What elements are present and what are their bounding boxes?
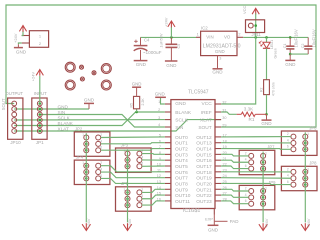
svg-text:TLC5947: TLC5947 — [188, 90, 209, 96]
svg-text:2: 2 — [141, 188, 143, 192]
svg-text:6: 6 — [245, 199, 247, 203]
svg-text:R2: R2 — [260, 87, 264, 92]
svg-text:IC2: IC2 — [201, 26, 208, 31]
svg-text:LED1: LED1 — [270, 40, 274, 49]
svg-text:XLAT: XLAT — [200, 117, 212, 123]
svg-text:GND: GND — [132, 81, 142, 86]
svg-text:31: 31 — [222, 108, 226, 112]
svg-text:4: 4 — [287, 138, 289, 142]
svg-text:GND: GND — [175, 101, 186, 107]
svg-text:OUT9: OUT9 — [175, 187, 188, 193]
svg-text:1: 1 — [265, 186, 267, 190]
svg-text:OUT23: OUT23 — [196, 199, 212, 205]
svg-text:SCLK: SCLK — [175, 117, 188, 123]
svg-text:OUT0: OUT0 — [175, 135, 188, 141]
svg-text:OUT21: OUT21 — [196, 187, 212, 193]
svg-text:3: 3 — [219, 57, 221, 61]
svg-text:2: 2 — [141, 149, 143, 153]
svg-text:OUT20: OUT20 — [196, 181, 212, 187]
svg-text:Green: Green — [273, 48, 277, 58]
svg-text:2.2K: 2.2K — [141, 98, 145, 106]
svg-text:OUT12: OUT12 — [196, 135, 212, 141]
svg-text:JP6: JP6 — [309, 125, 317, 130]
svg-text:SOUT: SOUT — [198, 125, 211, 131]
svg-text:JP11: JP11 — [252, 32, 262, 37]
svg-text:OUT13: OUT13 — [196, 141, 212, 147]
svg-text:1: 1 — [307, 167, 309, 171]
svg-text:6: 6 — [100, 146, 102, 150]
svg-text:VCC: VCC — [202, 101, 213, 107]
svg-text:6: 6 — [245, 164, 247, 168]
svg-text:SOUT: SOUT — [1, 98, 6, 110]
svg-text:SCLK: SCLK — [58, 115, 71, 120]
svg-text:4: 4 — [141, 155, 143, 159]
svg-text:EXP: EXP — [205, 216, 213, 221]
svg-text:+24V: +24V — [164, 17, 169, 27]
svg-text:6: 6 — [287, 145, 289, 149]
svg-text:4: 4 — [245, 158, 247, 162]
svg-text:JP4: JP4 — [76, 155, 84, 160]
svg-text:OUT2: OUT2 — [175, 147, 188, 153]
svg-text:VCC: VCC — [242, 5, 247, 14]
svg-text:2: 2 — [100, 161, 102, 165]
svg-text:6: 6 — [100, 174, 102, 178]
svg-text:GND: GND — [261, 121, 272, 126]
svg-text:GND: GND — [212, 70, 223, 75]
svg-text:3.3K: 3.3K — [244, 107, 254, 112]
svg-text:OUT16: OUT16 — [196, 158, 212, 164]
svg-text:6: 6 — [141, 162, 143, 166]
svg-text:4: 4 — [287, 174, 289, 178]
svg-text:6: 6 — [287, 180, 289, 184]
svg-text:2: 2 — [39, 41, 42, 46]
svg-text:2: 2 — [100, 133, 102, 137]
svg-text:VIN: VIN — [206, 35, 213, 40]
svg-text:2: 2 — [245, 151, 247, 155]
svg-text:+24V: +24V — [127, 218, 132, 228]
svg-text:OUT19: OUT19 — [196, 176, 212, 182]
svg-text:OUT4: OUT4 — [175, 158, 188, 164]
svg-text:1: 1 — [307, 132, 309, 136]
svg-text:OUT7: OUT7 — [175, 176, 188, 182]
svg-text:32: 32 — [222, 100, 226, 104]
svg-text:C4: C4 — [144, 38, 150, 43]
svg-text:OUT17: OUT17 — [196, 164, 212, 170]
svg-text:+24V: +24V — [306, 218, 311, 228]
svg-text:GND: GND — [58, 104, 69, 109]
svg-text:1: 1 — [158, 100, 160, 104]
svg-text:6: 6 — [141, 201, 143, 205]
svg-text:2: 2 — [158, 108, 160, 112]
svg-text:1: 1 — [124, 188, 126, 192]
svg-text:4: 4 — [100, 167, 102, 171]
svg-text:VO: VO — [224, 35, 231, 40]
svg-text:BLANK: BLANK — [58, 121, 74, 126]
svg-text:GND: GND — [16, 49, 27, 54]
svg-text:GND: GND — [166, 63, 177, 68]
svg-text:10uF/16V: 10uF/16V — [311, 29, 316, 47]
svg-text:OUT1: OUT1 — [175, 141, 188, 147]
svg-text:IREF: IREF — [201, 110, 212, 116]
svg-text:PAD: PAD — [230, 219, 240, 224]
svg-text:IC1G$1: IC1G$1 — [183, 208, 200, 214]
svg-text:OUT5: OUT5 — [175, 164, 188, 170]
svg-text:C2: C2 — [301, 44, 305, 49]
svg-text:BLANK: BLANK — [175, 110, 192, 116]
svg-text:GND: GND — [155, 91, 166, 96]
svg-text:OUT11: OUT11 — [175, 199, 190, 205]
svg-text:1: 1 — [124, 149, 126, 153]
svg-text:2: 2 — [287, 167, 289, 171]
svg-text:1: 1 — [39, 33, 42, 38]
svg-text:OUT8: OUT8 — [175, 181, 188, 187]
svg-text:JP3: JP3 — [121, 142, 129, 147]
svg-text:30: 30 — [222, 116, 226, 120]
svg-text:R1: R1 — [249, 117, 255, 122]
svg-text:R5: R5 — [129, 103, 133, 108]
svg-text:1: 1 — [197, 32, 199, 36]
svg-text:OUT6: OUT6 — [175, 170, 188, 176]
svg-text:GND: GND — [136, 62, 147, 67]
svg-text:10uF/16V: 10uF/16V — [293, 29, 298, 47]
svg-text:+24V: +24V — [86, 218, 91, 228]
svg-text:OUT10: OUT10 — [175, 193, 191, 199]
svg-text:INPUT: INPUT — [34, 91, 47, 96]
svg-text:JP8: JP8 — [309, 161, 317, 166]
svg-text:SIN: SIN — [175, 125, 184, 131]
svg-text:OUT3: OUT3 — [175, 152, 188, 158]
svg-text:C1: C1 — [283, 44, 287, 49]
svg-text:OUT14: OUT14 — [196, 147, 212, 153]
svg-text:4: 4 — [245, 193, 247, 197]
svg-text:GND: GND — [208, 227, 219, 232]
svg-text:JP10: JP10 — [10, 140, 21, 145]
svg-text:JP1: JP1 — [36, 140, 44, 145]
svg-text:4: 4 — [141, 194, 143, 198]
svg-text:4: 4 — [100, 139, 102, 143]
svg-text:SIN: SIN — [58, 110, 66, 115]
svg-text:2: 2 — [287, 132, 289, 136]
svg-text:.1uF/50V: .1uF/50V — [159, 33, 163, 49]
svg-text:XLAT: XLAT — [58, 126, 70, 131]
svg-text:2: 2 — [238, 32, 240, 36]
svg-text:1: 1 — [82, 161, 84, 165]
svg-text:JP2: JP2 — [75, 126, 83, 131]
svg-text:OUT22: OUT22 — [196, 193, 212, 199]
svg-text:2: 2 — [245, 186, 247, 190]
svg-text:OUT15: OUT15 — [196, 152, 212, 158]
svg-text:1: 1 — [265, 151, 267, 155]
svg-text:OUTPUT: OUTPUT — [5, 91, 23, 96]
svg-text:~1000uF: ~1000uF — [143, 50, 162, 55]
svg-text:OUT18: OUT18 — [196, 170, 212, 176]
svg-text:C5: C5 — [177, 44, 181, 49]
svg-text:470 ohm: 470 ohm — [271, 82, 275, 96]
svg-text:3: 3 — [158, 116, 160, 120]
svg-text:GND: GND — [215, 49, 225, 54]
svg-text:4: 4 — [158, 123, 160, 127]
svg-text:+24V: +24V — [31, 72, 36, 82]
svg-text:29: 29 — [222, 123, 226, 127]
svg-text:+24V: +24V — [264, 218, 269, 228]
svg-text:GND: GND — [84, 98, 95, 103]
svg-text:GND: GND — [285, 62, 296, 67]
svg-text:1: 1 — [82, 133, 84, 137]
svg-text:+24V: +24V — [13, 33, 18, 43]
